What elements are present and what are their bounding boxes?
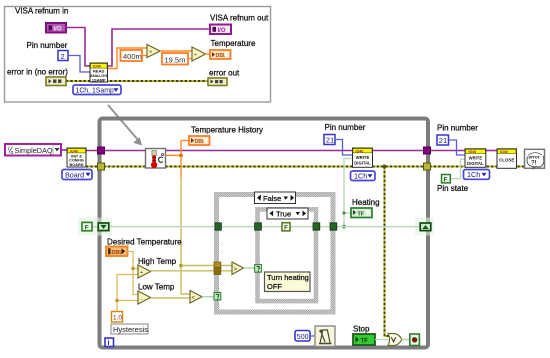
tunnel purple right — [424, 147, 431, 154]
wire 400m to multiply — [142, 55, 147, 57]
constant 19.5m — [162, 53, 188, 65]
function subtract — [138, 291, 151, 304]
svg-text:>: > — [234, 267, 238, 273]
VI simple error handler — [525, 149, 545, 169]
svg-text:1Ch: 1Ch — [354, 171, 367, 180]
wire desired temp vertical — [128, 252, 139, 295]
terminal Desired Temperature — [106, 247, 128, 257]
tunnel purple left — [98, 147, 105, 154]
svg-text:Hysteresis: Hysteresis — [113, 325, 148, 334]
dropdown Board — [62, 170, 92, 180]
shift register right — [420, 223, 431, 231]
wire pin state to write digital — [451, 159, 465, 178]
terminal error out — [208, 78, 227, 86]
function less — [190, 291, 202, 304]
free label Turn heating OFF — [265, 272, 311, 292]
selector False — [255, 192, 296, 204]
constant F (left of loop) — [82, 222, 92, 231]
wire SimpleDAQ to INIT — [61, 149, 67, 151]
svg-text:Pin number: Pin number — [325, 123, 366, 132]
wire hysteresis vertical — [115, 275, 138, 312]
svg-text:o: o — [11, 150, 14, 156]
wire greater to inner selector — [244, 267, 255, 269]
wire 19.5m to divide — [188, 58, 192, 60]
wire stop to or — [375, 339, 389, 341]
svg-text:Pin state: Pin state — [437, 184, 469, 193]
svg-text:Turn heating: Turn heating — [267, 273, 309, 282]
tunnel green outer-right — [330, 223, 337, 230]
constant 21 (loop) — [324, 135, 335, 145]
wire error dashed across inset — [66, 80, 208, 82]
wire divide to Temperature — [206, 53, 211, 55]
svg-text:Pin number: Pin number — [437, 124, 478, 133]
svg-text:CLOSE: CLOSE — [499, 158, 514, 163]
terminal iteration i — [105, 338, 114, 347]
svg-text:VISA refnum in: VISA refnum in — [15, 7, 68, 16]
constant F (inner case) — [282, 223, 290, 232]
case structure outer — [217, 195, 334, 313]
svg-text:TF: TF — [361, 338, 369, 344]
function add — [138, 265, 151, 278]
subVI inset frame — [5, 7, 271, 103]
tunnel green outer-left — [215, 223, 221, 230]
function greater — [232, 262, 244, 275]
VI CLOSE — [497, 149, 517, 169]
tunnel error left — [98, 163, 105, 170]
svg-text:19.5m: 19.5m — [165, 55, 186, 64]
dropdown 1Ch (right) — [464, 170, 490, 180]
divide function — [192, 47, 206, 61]
svg-text:High Temp: High Temp — [138, 257, 177, 266]
svg-text:21: 21 — [326, 136, 334, 145]
function or — [388, 334, 402, 346]
terminal error in — [46, 77, 66, 86]
dropdown 1Ch (loop) — [351, 171, 376, 181]
tunnel case selector inner — [255, 265, 262, 273]
tunnel green inner-left — [255, 223, 262, 230]
svg-text:400m: 400m — [123, 52, 142, 61]
svg-text:Desired Temperature: Desired Temperature — [107, 237, 182, 246]
svg-text:IO40: IO40 — [469, 150, 477, 154]
svg-text:TF: TF — [358, 211, 365, 217]
label Hysteresis — [111, 324, 148, 334]
svg-text:÷: ÷ — [194, 53, 197, 59]
wire thermometer out orange — [166, 154, 182, 156]
tunnel orange hightemp — [214, 268, 221, 275]
constant 1.0 — [112, 312, 123, 323]
tunnel case selector outer — [214, 293, 221, 301]
wire less out to case selector — [202, 296, 214, 298]
VI INIT CONFIG BOARD — [67, 148, 86, 167]
svg-text:Board: Board — [65, 170, 84, 179]
svg-text:True: True — [276, 210, 291, 219]
terminal Heating indicator — [351, 208, 372, 218]
wire heating green vertical — [342, 159, 352, 229]
svg-text:Temperature History: Temperature History — [191, 126, 263, 135]
tunnel error right — [424, 163, 431, 170]
svg-text:+: + — [140, 270, 143, 276]
svg-text:False: False — [263, 194, 281, 203]
wire 21 right to write digital — [449, 140, 466, 155]
svg-text:WRITE: WRITE — [356, 155, 370, 160]
svg-text:1Ch: 1Ch — [467, 170, 480, 179]
VI READ ANALOG 1SAMP — [90, 63, 108, 82]
wire to Temperature History — [181, 140, 189, 142]
multiply function — [147, 45, 160, 58]
case structure inner — [258, 209, 317, 301]
svg-text:SimpleDAQ: SimpleDAQ — [15, 146, 53, 155]
wire orange down to comparisons — [180, 141, 182, 179]
selector True — [267, 208, 308, 219]
wire 21 to write digital — [335, 140, 353, 156]
svg-text:IO40: IO40 — [70, 150, 78, 154]
svg-text:Pin number: Pin number — [27, 41, 68, 50]
svg-text:1SAMP: 1SAMP — [92, 77, 106, 82]
wire purple main rail — [86, 150, 497, 152]
while loop border — [100, 119, 429, 348]
svg-text:1Ch, 1Samp: 1Ch, 1Samp — [76, 87, 114, 94]
svg-text:IO40: IO40 — [500, 150, 508, 154]
constant 21 (right) — [437, 135, 449, 145]
svg-text:OFF: OFF — [267, 282, 282, 291]
constant F pin state — [442, 175, 451, 184]
svg-text:Temperature: Temperature — [211, 39, 256, 48]
dropdown 1Ch, 1Samp — [73, 85, 121, 95]
wire error branch down to or — [383, 165, 389, 337]
svg-text:1.0: 1.0 — [113, 315, 122, 322]
conditional terminal stop if true — [410, 334, 420, 346]
svg-text:<: < — [192, 295, 196, 301]
svg-text:2: 2 — [61, 52, 65, 61]
svg-text:F: F — [85, 224, 89, 231]
wire boolean shift rail — [92, 226, 420, 228]
wire VI out to VISA refnum out — [107, 29, 210, 66]
VI WRITE DIGITAL (right) — [465, 149, 486, 168]
wire error main rail — [86, 166, 525, 168]
svg-text:error in (no error): error in (no error) — [7, 68, 68, 77]
wire VISA in to VI — [66, 28, 90, 67]
wire subtract out to less — [151, 297, 191, 299]
svg-text:VISA refnum out: VISA refnum out — [210, 14, 269, 23]
svg-text:DIGITAL: DIGITAL — [354, 160, 371, 165]
VI wait until next ms multiple — [315, 326, 335, 347]
svg-text:Heating: Heating — [352, 198, 380, 207]
wire 500 to wait — [310, 335, 315, 337]
svg-text:i: i — [108, 340, 110, 347]
svg-text:Low Temp: Low Temp — [138, 283, 175, 292]
svg-text:21: 21 — [439, 136, 447, 145]
svg-text:IO40: IO40 — [356, 149, 364, 153]
wire glow halos — [78, 218, 112, 236]
svg-text:500: 500 — [297, 334, 309, 341]
constant 500 — [295, 331, 310, 342]
control SimpleDAQ — [5, 144, 61, 156]
svg-text:F: F — [284, 225, 288, 231]
constant 400m — [121, 50, 143, 61]
terminal VISA refnum in — [46, 23, 66, 33]
terminal VISA refnum out — [210, 25, 231, 35]
arrow inset to subVI node — [108, 105, 142, 146]
svg-text:BOARD: BOARD — [70, 163, 84, 167]
terminal Stop — [353, 334, 375, 345]
wire or to conditional terminal — [402, 339, 410, 341]
wire add out to greater — [151, 270, 233, 272]
terminal Temperature indicator — [210, 50, 231, 59]
svg-text:DIGITAL: DIGITAL — [467, 161, 484, 166]
wire VI analog out to multiply — [107, 48, 147, 69]
svg-text:F: F — [444, 177, 448, 183]
wire pin number to VI — [68, 56, 90, 73]
shift register left — [98, 223, 109, 231]
wire multiply to divide — [160, 50, 192, 52]
tunnel green inner-right — [313, 223, 320, 230]
svg-text:×: × — [149, 50, 152, 56]
constant 2 — [58, 51, 68, 61]
wire temp to greater — [181, 265, 232, 267]
VI WRITE DIGITAL (loop) — [353, 148, 373, 167]
svg-text:error out: error out — [209, 69, 240, 78]
tunnel orange temp — [214, 262, 221, 269]
svg-text:-: - — [141, 296, 143, 302]
svg-text:Stop: Stop — [353, 325, 370, 334]
svg-text:I/O: I/O — [218, 28, 226, 34]
svg-text:I/O: I/O — [54, 27, 62, 33]
terminal Temperature History — [189, 136, 210, 145]
subVI thermometer — [146, 149, 166, 169]
svg-text:?!: ?! — [531, 161, 537, 167]
